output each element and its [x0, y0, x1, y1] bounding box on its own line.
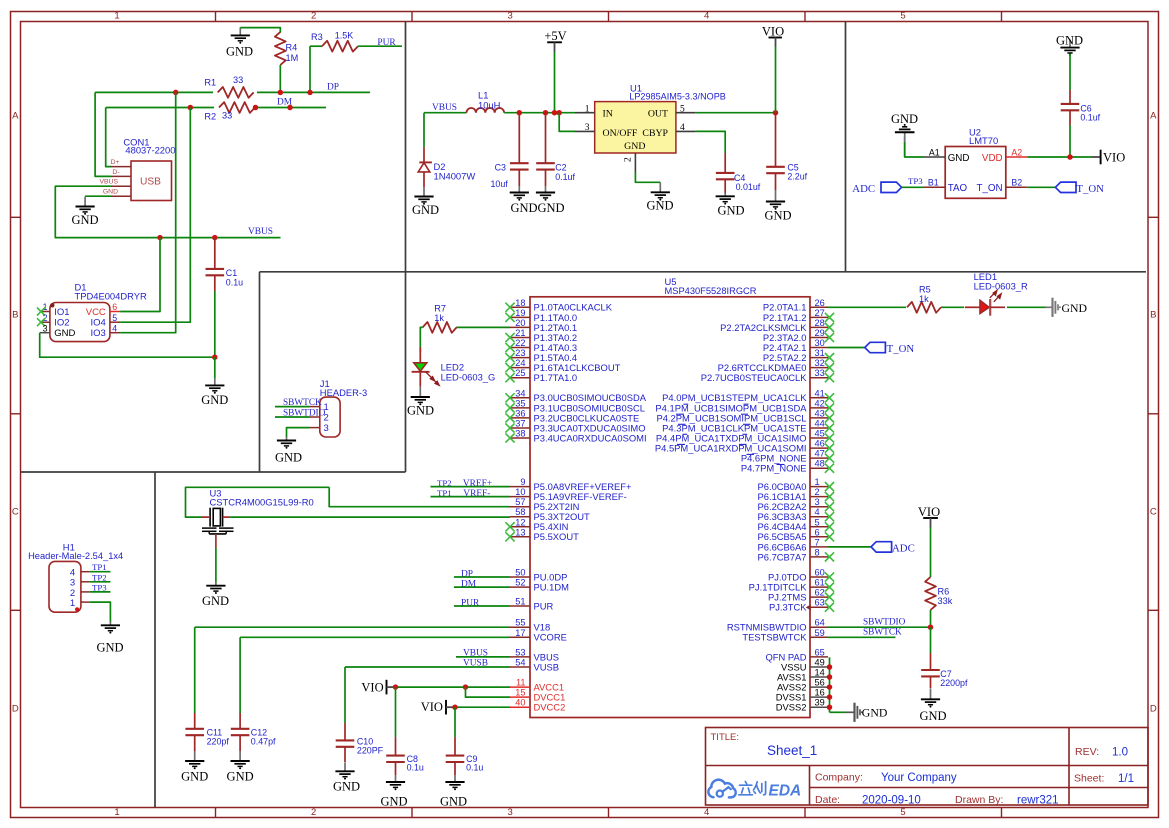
- svg-text:25: 25: [515, 368, 525, 378]
- H1 pin1: [70, 598, 90, 609]
- wire D1 IO3 to DP: [120, 92, 176, 332]
- svg-text:20: 20: [515, 318, 525, 328]
- svg-text:65: 65: [815, 647, 825, 657]
- gnd symbol C11: [181, 751, 208, 784]
- inductor L1: [467, 90, 505, 113]
- svg-text:R1: R1: [204, 78, 216, 88]
- svg-text:0.1u: 0.1u: [226, 277, 243, 287]
- svg-text:36: 36: [515, 408, 525, 418]
- svg-text:15: 15: [515, 688, 525, 698]
- svg-text:VUSB: VUSB: [534, 661, 560, 672]
- U5 pin 65 QFN PAD: [766, 647, 828, 662]
- U2 text VDD: [982, 153, 1003, 164]
- svg-text:CSTCR4M00G15L99-R0: CSTCR4M00G15L99-R0: [210, 496, 314, 507]
- resistor R5: [907, 285, 964, 313]
- label U2: [969, 127, 998, 146]
- wire J1 pin3 to gnd: [287, 428, 310, 437]
- wire D1 IO4 to DM: [120, 108, 190, 323]
- wire H1 pin4: [90, 571, 111, 573]
- D1 pin2: [37, 313, 70, 329]
- CON1 pin D-: [111, 169, 132, 177]
- svg-text:3: 3: [43, 323, 48, 333]
- svg-text:USB: USB: [140, 177, 161, 188]
- svg-text:3: 3: [585, 123, 590, 133]
- junction C2: [543, 110, 549, 116]
- svg-text:26: 26: [815, 298, 825, 308]
- svg-text:52: 52: [515, 578, 525, 588]
- svg-text:4: 4: [815, 507, 820, 517]
- svg-text:GND: GND: [440, 794, 467, 808]
- svg-text:49: 49: [815, 658, 825, 668]
- gnd symbol LED2: [407, 387, 434, 418]
- U5 pin 6 P6.5CB5A5: [758, 527, 835, 542]
- U5 pin 9 P5.0A8VREF+VEREF+: [510, 477, 632, 492]
- wire H1 pin1 to gnd: [90, 602, 111, 622]
- U5 pin 7 P6.6CB6A6: [758, 537, 829, 552]
- U5 pin 3 P6.2CB2A2: [758, 497, 835, 512]
- svg-text:A2: A2: [1011, 147, 1022, 157]
- svg-text:32: 32: [815, 358, 825, 368]
- U5 pin 36 P3.2UCB0CLKUCA0STE: [505, 408, 639, 423]
- svg-text:1M: 1M: [286, 53, 299, 63]
- svg-text:GND: GND: [201, 393, 228, 407]
- svg-text:33k: 33k: [938, 596, 953, 606]
- capacitor C2: [536, 113, 575, 186]
- wire A1 to gnd: [905, 137, 924, 157]
- title block table: [706, 728, 1149, 806]
- svg-text:0.01uf: 0.01uf: [736, 182, 761, 192]
- svg-text:0.1uf: 0.1uf: [555, 172, 575, 182]
- U5 pin 18 P1.0TA0CLKACLK: [505, 298, 612, 313]
- U5 pin 43 P4.2PM_UCB1SOMIPM_UCB1SCL: [656, 408, 834, 423]
- wire pin59: [828, 636, 896, 638]
- U5 pin 62 PJ.2TMS: [768, 588, 834, 603]
- svg-text:0.1u: 0.1u: [407, 763, 424, 773]
- svg-text:+5V: +5V: [544, 29, 566, 43]
- U5 pin 49 VSSU: [781, 658, 828, 673]
- svg-text:2: 2: [43, 313, 48, 323]
- svg-text:DM: DM: [461, 580, 477, 590]
- U5 pin 28 P2.2TA2CLKSMCLK: [720, 318, 834, 333]
- svg-text:LMT70: LMT70: [969, 135, 998, 146]
- svg-text:VIO: VIO: [1103, 150, 1125, 164]
- svg-text:22: 22: [515, 338, 525, 348]
- wire OUT to VIO: [695, 112, 775, 114]
- svg-text:2: 2: [624, 157, 634, 162]
- svg-text:R7: R7: [434, 304, 446, 314]
- junction VSSU: [827, 664, 833, 670]
- junction D1 gnd / C1: [212, 354, 218, 360]
- wire pin57 from U3: [329, 487, 510, 506]
- net flag T_ON (U2): [1027, 182, 1104, 195]
- capacitor C10: [336, 667, 384, 762]
- U5 pin 31 P2.5TA2.2: [763, 348, 834, 363]
- svg-text:VBUS: VBUS: [432, 103, 457, 113]
- junction DP-IO3: [173, 90, 179, 96]
- svg-text:61: 61: [815, 578, 825, 588]
- net label TP3 (H1): [92, 582, 107, 592]
- svg-text:57: 57: [515, 497, 525, 507]
- J1 pin3: [310, 423, 329, 434]
- junction DP-R3: [307, 90, 313, 96]
- svg-text:T_ON: T_ON: [976, 183, 1002, 194]
- wire pin64: [828, 626, 931, 628]
- net label PUR (U5): [461, 599, 480, 609]
- svg-text:5: 5: [900, 807, 905, 818]
- net label TP2/VREF+: [437, 478, 492, 489]
- svg-text:5: 5: [112, 313, 117, 323]
- gnd symbol LED1 (rotated): [1046, 298, 1088, 317]
- wire U3 gnd lead: [215, 534, 217, 582]
- U5 pin 51 PUR: [510, 597, 554, 612]
- resistor R2: [204, 100, 258, 122]
- gnd symbol U1: [646, 182, 673, 212]
- svg-text:34: 34: [515, 388, 525, 398]
- svg-text:220pf: 220pf: [207, 736, 230, 746]
- label CON1: [123, 137, 175, 156]
- U1 text OUT: [648, 109, 668, 120]
- svg-text:D+: D+: [111, 159, 120, 166]
- capacitor C9: [446, 707, 484, 775]
- net label VBUS (U5): [463, 649, 488, 659]
- wire pin10: [431, 496, 511, 498]
- D1 pin3: [40, 323, 76, 339]
- wire VIO to R6: [930, 528, 932, 578]
- ruler ticks left/right: [11, 217, 1159, 610]
- junction +5V: [552, 110, 558, 116]
- D1 pin1: [37, 302, 70, 318]
- U2 pin B1: [924, 178, 946, 188]
- divider usb-block right edge: [405, 22, 407, 473]
- svg-text:Sheet:: Sheet:: [1074, 773, 1104, 785]
- diode D2: [418, 161, 475, 187]
- svg-text:P3.4UCA0RXDUCA0SOMI: P3.4UCA0RXDUCA0SOMI: [534, 432, 647, 443]
- svg-text:GND: GND: [103, 189, 118, 196]
- U5 pin 42 P4.1PM_UCB1SIMOPM_UCB1SDA: [655, 398, 834, 413]
- net label SBWTCK (U5): [863, 628, 902, 638]
- wire pin9: [431, 486, 511, 488]
- svg-text:LED-0603_G: LED-0603_G: [441, 371, 496, 382]
- svg-text:TITLE:: TITLE:: [711, 732, 740, 743]
- junction AVCC1 flag: [393, 684, 399, 690]
- svg-text:GND: GND: [96, 641, 123, 655]
- svg-text:30: 30: [815, 338, 825, 348]
- svg-text:2200pf: 2200pf: [940, 678, 968, 688]
- U5 pin 34 P3.0UCB0SIMOUCB0SDA: [505, 388, 646, 403]
- svg-text:55: 55: [515, 618, 525, 628]
- led LED2: [412, 347, 496, 387]
- svg-text:2: 2: [311, 807, 316, 818]
- svg-text:40: 40: [515, 698, 525, 708]
- svg-text:1/1: 1/1: [1118, 773, 1134, 785]
- svg-text:Drawn By:: Drawn By:: [955, 794, 1003, 806]
- svg-text:63: 63: [815, 598, 825, 608]
- junction DVSS1: [827, 694, 833, 700]
- net label SBWTDIO (J1): [283, 408, 326, 418]
- svg-text:31: 31: [815, 348, 825, 358]
- rev label: [1075, 746, 1128, 759]
- U5 pin 25 P1.7TA1.0: [505, 368, 577, 383]
- svg-text:23: 23: [515, 348, 525, 358]
- gnd symbol CON1: [71, 197, 98, 227]
- svg-text:10: 10: [515, 487, 525, 497]
- net label VBUS (U1): [432, 103, 457, 113]
- diode D2 chain: [423, 113, 425, 163]
- date row: [815, 794, 921, 807]
- svg-text:GND: GND: [891, 112, 918, 126]
- ruler numbers: [114, 10, 905, 817]
- junction ON/OFF: [556, 110, 562, 116]
- U5 pin 55 V18: [510, 618, 550, 633]
- wire D+ to DM: [106, 108, 111, 167]
- J1 pin1: [310, 402, 329, 413]
- junction DM-D1: [287, 105, 293, 111]
- U5 pin 64 RSTNMISBWTDIO: [727, 618, 828, 633]
- ic U2 body: [945, 147, 1006, 199]
- wire pin11 AVCC1: [396, 686, 511, 688]
- U5 pin 12 P5.4XIN: [505, 517, 568, 532]
- svg-text:MSP430F5528IRGCR: MSP430F5528IRGCR: [665, 286, 757, 296]
- U5 pin 50 PU.0DP: [510, 568, 567, 583]
- U5 pin 58 P5.3XT2OUT: [510, 507, 590, 522]
- U5 pin 15 DVCC1: [510, 688, 565, 703]
- power flag VIO (U1): [762, 25, 784, 113]
- U5 pin 23 P1.5TA0.4: [505, 348, 577, 363]
- svg-text:TP1: TP1: [92, 562, 107, 572]
- svg-text:GND: GND: [948, 153, 970, 164]
- junction AVSS1: [827, 674, 833, 680]
- svg-text:37: 37: [515, 419, 525, 429]
- svg-text:4: 4: [704, 10, 709, 21]
- CON1 pin VBUS: [99, 179, 131, 187]
- svg-text:59: 59: [815, 628, 825, 638]
- U5 pin 26 P2.0TA1.1: [763, 298, 828, 313]
- svg-text:29: 29: [815, 328, 825, 338]
- U5 P4 pin-name overbars: [676, 404, 785, 464]
- svg-text:ADC: ADC: [852, 183, 875, 195]
- wire LED1 to gnd: [1007, 306, 1046, 308]
- regulator U1 body: [595, 102, 676, 153]
- svg-text:VDD: VDD: [982, 153, 1003, 164]
- svg-text:42: 42: [815, 398, 825, 408]
- net label DM (U5): [461, 580, 477, 590]
- U5 pin 13 P5.5XOUT: [505, 527, 579, 542]
- U5 pin 14 AVSS1: [777, 668, 828, 683]
- power flag VIO (AVCC1): [361, 680, 395, 695]
- svg-text:64: 64: [815, 618, 825, 628]
- gnd symbol C7: [919, 688, 946, 723]
- gnd symbol C9: [440, 775, 467, 808]
- label D1: [75, 282, 147, 302]
- svg-text:39: 39: [815, 698, 825, 708]
- svg-text:DP: DP: [327, 83, 339, 93]
- wire ON/OFF branch: [559, 113, 575, 132]
- net label TP1/VREF-: [437, 488, 490, 499]
- ruler letters: [12, 110, 1157, 714]
- svg-text:GND: GND: [333, 780, 360, 794]
- svg-text:3: 3: [815, 497, 820, 507]
- svg-text:P5.5XOUT: P5.5XOUT: [534, 531, 580, 542]
- U2 text TAO: [948, 183, 968, 194]
- svg-text:VIO: VIO: [361, 681, 383, 695]
- connector CON1 body: [131, 161, 172, 201]
- U5 pin 48 P4.7PM_NONE: [741, 459, 834, 474]
- svg-text:1.5K: 1.5K: [335, 31, 354, 41]
- net flag ADC (U2): [852, 182, 923, 195]
- svg-text:47: 47: [815, 449, 825, 459]
- capacitor C12: [231, 637, 276, 751]
- svg-text:SBWTCK: SBWTCK: [863, 628, 902, 638]
- svg-text:58: 58: [515, 507, 525, 517]
- gnd symbol U3: [202, 582, 229, 608]
- svg-text:GND: GND: [407, 403, 434, 417]
- gnd symbol C3: [510, 186, 538, 215]
- resistor R7: [420, 304, 510, 353]
- resonator U3: [201, 508, 234, 534]
- U5 pin 44 P4.3PM_UCB1CLKPM_UCA1STE: [662, 419, 834, 434]
- svg-text:P6.7CB7A7: P6.7CB7A7: [758, 551, 807, 562]
- U5 pin 27 P2.1TA1.2: [763, 308, 834, 323]
- svg-text:2.2uf: 2.2uf: [787, 171, 807, 181]
- svg-text:18: 18: [515, 298, 525, 308]
- U5 pin 61 PJ.1TDITCLK: [749, 578, 834, 593]
- CON1 pin GND: [103, 189, 131, 197]
- U5 pin 40 DVCC2: [510, 698, 565, 713]
- gnd symbol C8: [380, 775, 407, 808]
- net label DP (U5): [461, 570, 473, 580]
- svg-text:GND: GND: [71, 213, 98, 227]
- U2 pin A1: [924, 147, 946, 157]
- svg-text:TP2: TP2: [92, 572, 107, 582]
- title value Sheet_1: [767, 743, 817, 758]
- U5 pin 32 P2.6RTCCLKDMAE0: [718, 358, 835, 373]
- svg-text:EDA: EDA: [769, 783, 802, 800]
- svg-text:C3: C3: [495, 163, 506, 173]
- svg-text:13: 13: [515, 527, 525, 537]
- wire pin51: [454, 605, 510, 607]
- wire VBUS pin to VBUS rail: [55, 186, 280, 237]
- junction DM-R2: [253, 105, 259, 111]
- svg-text:GND: GND: [1062, 301, 1088, 315]
- svg-text:rewr321: rewr321: [1017, 795, 1059, 807]
- U5 pin 22 P1.4TA0.3: [505, 338, 577, 353]
- gnd symbol QFN (rotated): [845, 703, 888, 722]
- net label DM: [277, 98, 293, 108]
- svg-text:17: 17: [515, 628, 525, 638]
- U5 pin 53 VBUS: [510, 647, 559, 662]
- svg-text:16: 16: [815, 688, 825, 698]
- led LED1: [965, 271, 1028, 316]
- U5 pin 19 P1.1TA0.0: [505, 308, 577, 323]
- U5 pin 35 P3.1UCB0SOMIUCB0SCL: [505, 398, 645, 413]
- U5 pin 1 P6.0CB0A0: [758, 477, 835, 492]
- svg-text:R2: R2: [204, 112, 216, 122]
- svg-text:46: 46: [815, 439, 825, 449]
- wire pin52: [454, 586, 510, 588]
- svg-text:GND: GND: [1056, 33, 1083, 47]
- junction C6-VDD: [1067, 154, 1073, 160]
- svg-text:Sheet_1: Sheet_1: [767, 743, 817, 758]
- gnd symbol H1: [96, 621, 123, 654]
- svg-text:GND: GND: [226, 45, 253, 59]
- wire pin55 V18: [195, 626, 510, 628]
- U5 pin 11 AVCC1: [510, 678, 564, 693]
- svg-text:1: 1: [43, 302, 48, 312]
- wire R3 down to DP: [309, 46, 311, 92]
- U5 pin 4 P6.3CB3A3: [758, 507, 835, 522]
- svg-text:0.47pf: 0.47pf: [251, 736, 276, 746]
- junction DVCC2 flag: [452, 704, 458, 710]
- svg-text:5: 5: [815, 517, 820, 527]
- U5 pin 17 VCORE: [510, 628, 567, 643]
- svg-text:B1: B1: [928, 178, 939, 188]
- capacitor C5: [766, 113, 807, 190]
- svg-text:28: 28: [815, 318, 825, 328]
- svg-text:GND: GND: [380, 794, 407, 808]
- net flag T_ON (U5): [828, 342, 914, 355]
- wire gnd to C6: [1069, 54, 1071, 91]
- svg-text:C: C: [12, 506, 19, 517]
- svg-text:B: B: [12, 309, 18, 320]
- svg-text:3: 3: [508, 807, 513, 818]
- junction DVSS2: [827, 704, 833, 710]
- gnd symbol C5: [764, 190, 791, 222]
- svg-text:ADC: ADC: [892, 543, 915, 555]
- label H1: [28, 541, 123, 561]
- svg-text:Company:: Company:: [815, 772, 863, 784]
- svg-text:VIO: VIO: [762, 25, 784, 39]
- svg-text:33: 33: [815, 368, 825, 378]
- U2 text GND: [948, 153, 970, 164]
- svg-text:T_ON: T_ON: [887, 343, 915, 355]
- gnd symbol C6 top: [1056, 33, 1083, 56]
- junction DP-R4: [278, 90, 284, 96]
- H1 pin2: [70, 588, 90, 599]
- svg-text:6: 6: [815, 527, 820, 537]
- wire DM line: [106, 107, 326, 109]
- svg-text:P2.7UCB0STEUCA0CLK: P2.7UCB0STEUCA0CLK: [701, 372, 808, 383]
- svg-text:GND: GND: [412, 203, 439, 217]
- wire VSS bus: [830, 657, 846, 712]
- U5 pin 52 PU.1DM: [510, 578, 569, 593]
- svg-text:54: 54: [515, 658, 525, 668]
- U5 pin 57 P5.2XT2IN: [510, 497, 579, 512]
- gnd symbol D2: [412, 187, 439, 217]
- svg-text:GND: GND: [510, 201, 537, 215]
- svg-text:7: 7: [815, 537, 820, 547]
- wire VBUS to L1: [424, 112, 467, 114]
- svg-text:1k: 1k: [434, 313, 444, 323]
- svg-text:8: 8: [815, 547, 820, 557]
- label U3: [210, 488, 314, 508]
- svg-text:DVSS2: DVSS2: [776, 702, 807, 713]
- svg-text:SBWTDIO: SBWTDIO: [863, 618, 906, 628]
- svg-text:10uH: 10uH: [478, 99, 500, 110]
- U5 pin 16 DVSS1: [776, 688, 828, 703]
- svg-text:48: 48: [815, 459, 825, 469]
- D1 pin6 VCC: [86, 302, 120, 318]
- net label SBWTCK (J1): [283, 398, 322, 408]
- svg-text:IO4: IO4: [90, 318, 105, 329]
- U5 pin 47 P4.6PM_NONE: [741, 449, 834, 464]
- svg-text:B: B: [1150, 309, 1156, 320]
- wire pin50: [454, 576, 510, 578]
- U5 pin 24 P1.6TA1CLKCBOUT: [505, 358, 620, 373]
- U5 pin63 clock mark: [806, 605, 811, 611]
- U5 pin 46 P4.5PM_UCA1RXDPM_UCA1SOMI: [655, 439, 834, 454]
- net label DP: [327, 83, 339, 93]
- wire DP line: [95, 91, 370, 93]
